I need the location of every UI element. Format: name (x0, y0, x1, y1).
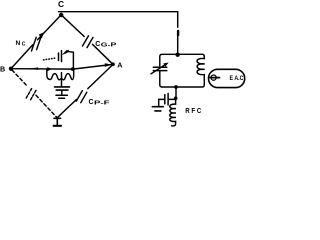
svg-text:E A.C: E A.C (230, 75, 244, 82)
tank left wire upper (159, 57, 161, 66)
capacitor CG-F dashed plates (26, 89, 36, 100)
generator E A.C. pill (209, 69, 245, 87)
wire top horizontal from C to tank (59, 11, 178, 13)
junction dot bypass (174, 96, 178, 100)
wire overlap blob on vertical (177, 31, 179, 35)
tube grid dotted lead (44, 58, 57, 60)
node C junction dot (59, 13, 63, 17)
ground under filament (56, 95, 67, 98)
svg-text:G-P: G-P (101, 42, 117, 48)
filament bypass capacitor (55, 87, 70, 90)
tank coil L (197, 57, 205, 85)
svg-text:R F C: R F C (185, 108, 201, 115)
bypass capacitor plates right side (165, 93, 168, 105)
wire diagonal C to A (upper-right arm) (62, 16, 113, 64)
wire plate lead to B-A line (68, 52, 73, 70)
wire B to A horizontal (11, 64, 113, 69)
junction dot plate lead on B-A line (71, 67, 75, 71)
svg-text:C: C (58, 0, 64, 9)
svg-text:B: B (0, 64, 5, 73)
filament center tap wire (61, 73, 63, 87)
tank left wire lower (160, 71, 162, 87)
wire dashed B to bottom vertex (lower-left arm) (12, 70, 57, 117)
label CP-F (89, 99, 111, 107)
label NC (16, 40, 26, 48)
node B junction dot (9, 67, 13, 71)
wire A to bottom vertex (lower-right arm) (58, 65, 112, 117)
junction dot tank top (175, 53, 179, 57)
wire diagonal C to B (upper-left arm) (11, 16, 60, 69)
svg-text:C: C (89, 99, 94, 106)
junction dot tank bottom (174, 85, 178, 89)
wire tank bottom down (175, 87, 177, 99)
label RFC (185, 108, 201, 115)
wire cap to ground (61, 91, 63, 95)
label E A.C. (230, 75, 244, 82)
ground right side (158, 99, 160, 106)
label CG-P (95, 41, 117, 48)
arrow on wire pointing right toward A (105, 63, 112, 67)
node B label (0, 64, 5, 73)
wire bypass cap (159, 98, 176, 100)
node A label (117, 60, 122, 69)
capacitor CG-P plates (83, 36, 94, 48)
bottom vertex terminal symbol (54, 118, 61, 125)
capacitor NC arrow (39, 32, 45, 38)
tank circuit top wire (160, 54, 205, 56)
node A junction dot (111, 62, 115, 66)
generator terminal circle (211, 75, 216, 80)
svg-text:N: N (16, 40, 21, 47)
svg-text:C: C (95, 41, 100, 48)
tank variable capacitor plates (153, 67, 167, 70)
arrow on wire pointing left toward B (29, 67, 39, 70)
tube grid bar (58, 53, 60, 61)
svg-text:A: A (117, 60, 122, 69)
tank bottom wire (162, 85, 204, 87)
tank capacitor arrow (151, 65, 165, 74)
arrow on wire pointing right at grid (47, 67, 51, 71)
svg-text:P-F: P-F (94, 101, 111, 107)
filament winding coil (47, 69, 74, 80)
tube plate lead arrow (62, 50, 69, 55)
svg-text:C: C (22, 41, 26, 47)
choke RFC coil (170, 99, 176, 126)
capacitor CP-F plates (76, 91, 87, 103)
capacitor NC (variable, plates) (32, 36, 42, 51)
tube plate bar (61, 51, 63, 62)
node C label (58, 0, 64, 9)
wire vertical from top wire to tank (177, 12, 179, 55)
